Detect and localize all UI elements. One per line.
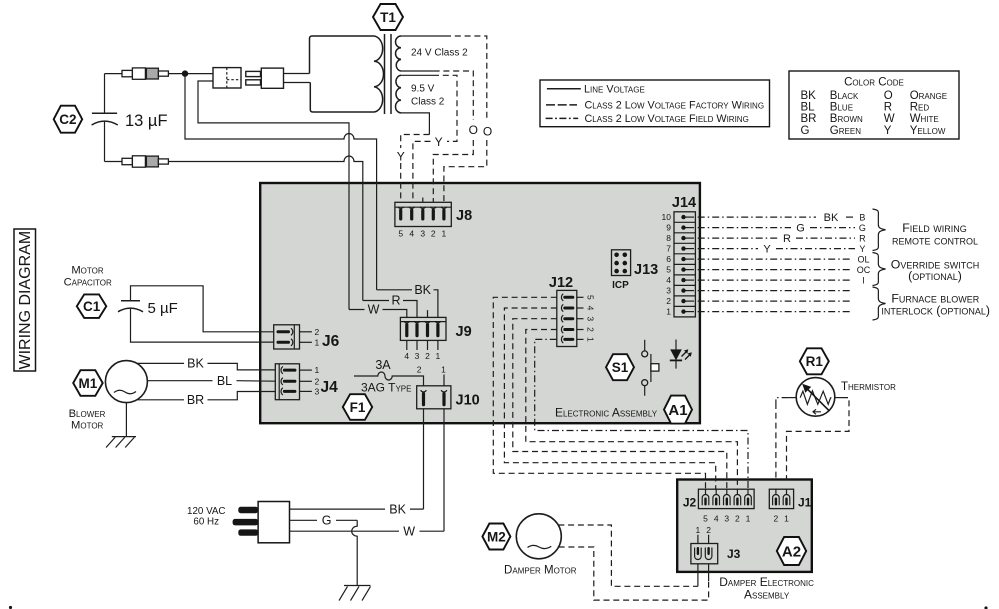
- svg-text:2: 2: [431, 229, 436, 239]
- svg-text:R: R: [783, 233, 791, 245]
- svg-text:Green: Green: [830, 125, 861, 137]
- svg-text:(optional): (optional): [908, 269, 962, 283]
- svg-text:T1: T1: [380, 10, 396, 25]
- svg-text:G: G: [801, 125, 810, 137]
- svg-text:8: 8: [666, 233, 671, 243]
- svg-text:BK: BK: [389, 502, 406, 516]
- svg-text:3: 3: [586, 316, 596, 321]
- svg-text:Yellow: Yellow: [910, 125, 946, 137]
- svg-text:S1: S1: [612, 360, 629, 375]
- svg-text:M2: M2: [487, 529, 506, 544]
- svg-text:J12: J12: [549, 275, 573, 291]
- svg-text:2: 2: [425, 351, 430, 361]
- svg-text:6: 6: [666, 254, 671, 264]
- svg-text:1: 1: [666, 307, 671, 317]
- svg-text:M1: M1: [79, 376, 98, 391]
- svg-text:W: W: [884, 113, 895, 125]
- svg-text:3: 3: [666, 286, 671, 296]
- svg-text:Red: Red: [910, 102, 930, 114]
- svg-text:Y: Y: [859, 244, 865, 254]
- svg-text:Brown: Brown: [830, 113, 863, 125]
- svg-text:G: G: [859, 223, 866, 233]
- svg-text:9: 9: [666, 223, 671, 233]
- svg-text:4: 4: [586, 306, 596, 311]
- svg-text:3: 3: [315, 386, 320, 396]
- svg-text:4: 4: [714, 514, 719, 524]
- svg-text:1: 1: [441, 365, 446, 375]
- svg-text:Class 2: Class 2: [411, 97, 445, 108]
- svg-text:1: 1: [315, 365, 320, 375]
- svg-text:9.5 V: 9.5 V: [411, 84, 435, 95]
- svg-text:Y: Y: [763, 244, 771, 256]
- svg-text:4: 4: [666, 275, 671, 285]
- svg-text:Color Code: Color Code: [844, 76, 904, 88]
- svg-text:1: 1: [586, 337, 596, 342]
- svg-text:I: I: [862, 276, 865, 286]
- svg-text:Class 2 Low Voltage Field Wiri: Class 2 Low Voltage Field Wiring: [585, 113, 749, 125]
- svg-text:1: 1: [696, 525, 701, 535]
- svg-text:2: 2: [315, 327, 320, 337]
- svg-text:BK: BK: [187, 357, 204, 371]
- svg-text:J10: J10: [456, 393, 480, 409]
- svg-text:Blower: Blower: [69, 408, 106, 420]
- svg-text:Motor: Motor: [71, 265, 104, 277]
- svg-text:G: G: [796, 223, 805, 235]
- svg-text:Line Voltage: Line Voltage: [584, 84, 645, 96]
- svg-text:Class 2 Low Voltage Factory Wi: Class 2 Low Voltage Factory Wiring: [585, 99, 765, 111]
- svg-text:WIRING DIAGRAM: WIRING DIAGRAM: [17, 231, 34, 370]
- svg-text:R1: R1: [806, 354, 824, 369]
- svg-text:J13: J13: [634, 262, 658, 278]
- svg-text:O: O: [469, 123, 478, 137]
- svg-text:BK: BK: [801, 90, 817, 102]
- svg-text:5: 5: [398, 229, 403, 239]
- svg-text:1: 1: [746, 514, 751, 524]
- svg-text:3A: 3A: [375, 358, 391, 372]
- svg-text:BL: BL: [801, 102, 816, 114]
- svg-text:2: 2: [417, 365, 422, 375]
- svg-text:W: W: [368, 303, 380, 317]
- svg-text:2: 2: [586, 327, 596, 332]
- svg-text:R: R: [391, 294, 400, 308]
- svg-text:5 µF: 5 µF: [148, 300, 178, 317]
- svg-text:BK: BK: [824, 212, 839, 224]
- svg-text:Y: Y: [435, 135, 443, 149]
- svg-text:F1: F1: [350, 400, 366, 415]
- svg-text:2: 2: [735, 514, 740, 524]
- svg-text:O: O: [483, 125, 492, 139]
- svg-text:4: 4: [404, 351, 409, 361]
- svg-text:A1: A1: [668, 402, 687, 419]
- svg-text:White: White: [910, 113, 939, 125]
- svg-text:J4: J4: [321, 379, 339, 396]
- svg-text:Capacitor: Capacitor: [64, 277, 112, 289]
- svg-text:1: 1: [436, 351, 441, 361]
- svg-text:J9: J9: [456, 324, 472, 340]
- svg-text:2: 2: [706, 525, 711, 535]
- svg-text:1: 1: [315, 337, 320, 347]
- svg-text:24 V Class 2: 24 V Class 2: [411, 48, 468, 59]
- svg-text:Damper Motor: Damper Motor: [504, 565, 577, 577]
- svg-text:3: 3: [420, 229, 425, 239]
- svg-text:remote control: remote control: [892, 234, 978, 248]
- svg-text:J2: J2: [683, 496, 697, 510]
- svg-text:Thermistor: Thermistor: [841, 381, 896, 393]
- svg-text:C2: C2: [59, 112, 76, 127]
- svg-text:7: 7: [666, 244, 671, 254]
- svg-text:2: 2: [315, 376, 320, 386]
- svg-text:10: 10: [662, 212, 672, 222]
- svg-text:J6: J6: [322, 333, 340, 350]
- svg-text:1: 1: [442, 229, 447, 239]
- svg-text:3AG Type: 3AG Type: [361, 381, 411, 395]
- svg-text:ICP: ICP: [612, 280, 629, 291]
- svg-text:J3: J3: [727, 547, 741, 561]
- svg-text:4: 4: [409, 229, 414, 239]
- svg-text:3: 3: [724, 514, 729, 524]
- svg-text:120 VAC: 120 VAC: [187, 506, 225, 517]
- svg-text:Y: Y: [397, 150, 405, 164]
- svg-text:Orange: Orange: [910, 90, 947, 102]
- svg-text:Electronic Assembly: Electronic Assembly: [555, 406, 658, 420]
- svg-text:O: O: [884, 90, 893, 102]
- svg-text:OL: OL: [857, 255, 869, 265]
- svg-text:Y: Y: [884, 125, 892, 137]
- svg-text:BR: BR: [801, 113, 817, 125]
- svg-text:2: 2: [666, 296, 671, 306]
- svg-text:60 Hz: 60 Hz: [193, 517, 219, 528]
- svg-text:J8: J8: [456, 208, 472, 224]
- svg-text:B: B: [859, 213, 865, 223]
- svg-text:J1: J1: [798, 496, 812, 510]
- svg-text:J14: J14: [672, 195, 696, 211]
- svg-text:C1: C1: [83, 299, 101, 314]
- svg-text:Blue: Blue: [830, 102, 853, 114]
- svg-text:R: R: [884, 102, 892, 114]
- svg-text:BL: BL: [217, 374, 232, 388]
- svg-text:interlock (optional): interlock (optional): [881, 304, 990, 318]
- svg-text:Assembly: Assembly: [744, 588, 790, 602]
- svg-text:5: 5: [586, 295, 596, 300]
- svg-text:13 µF: 13 µF: [125, 112, 168, 130]
- svg-text:2: 2: [774, 514, 779, 524]
- svg-text:1: 1: [784, 514, 789, 524]
- svg-text:5: 5: [666, 265, 671, 275]
- svg-text:BR: BR: [187, 393, 204, 407]
- svg-text:5: 5: [703, 514, 708, 524]
- svg-text:Motor: Motor: [71, 419, 104, 431]
- svg-text:R: R: [859, 234, 866, 244]
- svg-text:A2: A2: [782, 543, 801, 560]
- svg-text:BK: BK: [414, 283, 431, 297]
- svg-text:Black: Black: [830, 90, 859, 102]
- svg-text:3: 3: [415, 351, 420, 361]
- svg-text:OC: OC: [857, 265, 871, 275]
- svg-text:G: G: [322, 514, 332, 528]
- svg-text:W: W: [403, 524, 415, 538]
